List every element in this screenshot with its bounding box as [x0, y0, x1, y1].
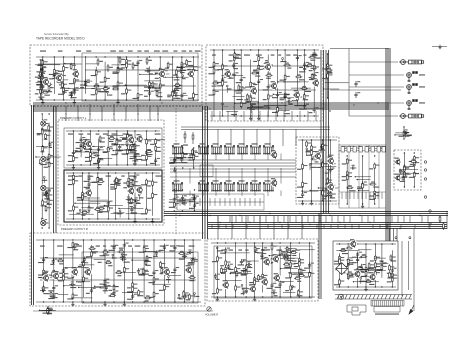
value label	[46, 91, 52, 92]
capacitor C19	[221, 77, 227, 83]
value label	[275, 255, 280, 256]
terminal	[328, 192, 330, 194]
link wire	[281, 268, 298, 270]
junction	[124, 239, 125, 240]
link wire	[175, 94, 188, 96]
value label	[68, 180, 72, 181]
link wire	[40, 309, 56, 311]
chain wire	[128, 173, 130, 219]
junction	[404, 152, 405, 153]
value label	[334, 261, 339, 262]
value label	[132, 146, 136, 147]
junction	[35, 156, 36, 157]
value label	[241, 274, 246, 275]
horizontal bus mid	[164, 212, 448, 216]
resistor R79	[73, 155, 79, 162]
link wire	[248, 107, 271, 109]
junction	[269, 255, 270, 256]
junction	[322, 200, 323, 201]
capacitor C41	[97, 158, 103, 164]
terminal	[292, 286, 294, 288]
wire	[81, 207, 93, 209]
supply rail	[298, 139, 337, 141]
capacitor C55	[133, 174, 139, 180]
resistor R71	[265, 73, 272, 77]
value label	[348, 264, 354, 265]
value label	[327, 72, 332, 73]
link wire	[90, 201, 110, 203]
resistor R25	[193, 68, 199, 75]
link wire	[100, 158, 112, 160]
junction	[222, 49, 223, 50]
value label	[267, 288, 273, 289]
capacitor C16	[173, 92, 179, 97]
junction	[108, 130, 109, 131]
value label	[267, 66, 272, 67]
value label	[144, 90, 150, 91]
resistor R181	[235, 284, 241, 291]
resistor R221	[326, 178, 332, 185]
jack line R	[407, 72, 418, 82]
junction	[42, 113, 43, 114]
junction	[311, 139, 312, 140]
value label	[122, 139, 128, 140]
junction	[193, 56, 194, 57]
link wire	[107, 135, 123, 137]
link wire	[69, 87, 95, 89]
junction	[146, 130, 147, 131]
link wire	[79, 264, 94, 266]
junction	[268, 115, 269, 116]
value label	[141, 184, 147, 185]
junction	[258, 115, 259, 116]
capacitor C2	[73, 87, 79, 93]
value label	[158, 96, 163, 97]
wire	[251, 107, 253, 113]
value label	[410, 164, 416, 165]
value label	[169, 202, 174, 203]
value label	[48, 290, 54, 291]
resistor R49	[222, 80, 228, 87]
value label	[280, 97, 286, 98]
transistor Q28	[272, 254, 280, 263]
label rows under board edges	[40, 51, 316, 251]
resistor R279	[48, 161, 54, 168]
value label	[137, 295, 143, 296]
terminal	[404, 132, 406, 134]
value label	[77, 200, 83, 201]
input socket	[40, 120, 49, 128]
resistor R160	[161, 267, 167, 274]
junction	[134, 172, 135, 173]
resistor R18	[137, 92, 143, 99]
transistor Q13	[127, 135, 135, 144]
terminal	[180, 69, 182, 71]
junction	[277, 49, 278, 50]
resistor R99	[129, 144, 135, 151]
resistor R55	[258, 64, 264, 71]
chain wire	[73, 57, 75, 94]
resistor R170	[183, 290, 189, 297]
return rail	[66, 164, 160, 166]
value label	[121, 254, 127, 255]
value label	[361, 272, 365, 273]
wire	[222, 105, 224, 111]
capacitor C50	[94, 152, 100, 157]
value label	[179, 259, 185, 260]
value label	[44, 95, 50, 96]
transistor Q30	[270, 150, 278, 159]
resistor R210	[302, 181, 308, 188]
junction	[339, 286, 340, 287]
resistor R67	[257, 67, 263, 74]
value label	[169, 162, 174, 163]
junction	[117, 56, 118, 57]
link wire	[180, 152, 192, 154]
junction	[394, 134, 395, 135]
value label	[139, 274, 144, 275]
link wire	[323, 88, 339, 90]
capacitor C58	[126, 197, 132, 202]
junction	[63, 239, 64, 240]
internal rails B2	[212, 66, 316, 90]
capacitor C33	[286, 98, 292, 103]
link wire	[113, 150, 137, 152]
label voltage selector	[375, 314, 399, 315]
junction	[184, 301, 185, 302]
transistor Q18	[42, 273, 50, 282]
value label	[369, 284, 374, 285]
link wire	[273, 93, 289, 95]
resistor R11	[104, 85, 110, 92]
switch section upper	[250, 145, 261, 154]
junction	[125, 84, 126, 85]
chain wire	[82, 173, 84, 219]
resistor R244	[368, 262, 374, 269]
capacitor C100	[240, 259, 246, 265]
chain wire	[41, 114, 43, 225]
junction	[193, 167, 194, 168]
junction	[194, 189, 195, 190]
terminal	[241, 284, 243, 286]
link wire	[86, 63, 98, 65]
value label	[117, 183, 121, 184]
value label	[117, 213, 122, 214]
value label	[342, 163, 346, 164]
value label	[369, 168, 373, 169]
transistor Q14	[136, 134, 144, 143]
junction	[235, 296, 236, 297]
capacitor C11	[175, 85, 181, 91]
link wire	[153, 283, 171, 285]
chain wire	[403, 153, 405, 187]
value label	[212, 293, 216, 294]
resistor R157	[57, 258, 64, 262]
capacitor C68	[112, 290, 118, 296]
capacitor C126	[40, 66, 46, 72]
link wire	[286, 97, 298, 99]
resistor R2	[42, 75, 48, 82]
junction	[247, 107, 248, 108]
value label	[343, 266, 349, 267]
resistor R48	[222, 63, 228, 70]
resistor R190	[290, 261, 296, 268]
capacitor C13	[145, 68, 151, 73]
resistor R211	[311, 145, 317, 152]
jack label	[419, 86, 425, 87]
resistor R134	[63, 271, 69, 278]
link wire	[252, 106, 269, 108]
resistor R31	[186, 59, 192, 66]
resistor R212	[311, 149, 317, 156]
value label	[212, 86, 217, 87]
resistor R62	[313, 64, 319, 71]
junction	[123, 272, 124, 273]
link wire	[141, 139, 165, 141]
resistor R290	[47, 307, 53, 314]
value label	[68, 210, 72, 211]
supply rail	[66, 130, 160, 132]
junction	[113, 301, 114, 302]
capacitor C47	[129, 139, 135, 144]
resistor R248	[327, 63, 333, 70]
return rail	[210, 115, 319, 117]
junction	[90, 130, 91, 131]
return rail	[298, 200, 337, 202]
wire	[242, 290, 244, 295]
resistor R232	[374, 270, 380, 277]
resistor R252	[182, 152, 188, 159]
resistor R184	[254, 276, 260, 283]
chain wire	[240, 50, 242, 109]
resistor R108	[82, 194, 88, 201]
board outline lower-mid	[207, 239, 318, 301]
resistor R257	[404, 166, 410, 173]
resistor R113	[115, 178, 121, 185]
junction	[126, 99, 127, 100]
value label	[136, 159, 142, 160]
transistor Q31	[270, 178, 278, 187]
wire	[306, 150, 308, 156]
value label	[46, 313, 51, 314]
link wire	[39, 276, 60, 278]
junction	[327, 53, 328, 54]
resistor R179	[225, 266, 231, 273]
junction	[164, 301, 165, 302]
value label	[103, 91, 109, 92]
resistor R15	[126, 58, 132, 65]
chain wire	[134, 131, 136, 165]
resistor R94	[146, 154, 152, 161]
value label	[108, 95, 112, 96]
supply rail	[66, 172, 160, 174]
junction	[164, 77, 165, 78]
wire	[41, 84, 43, 88]
value label	[327, 169, 333, 170]
capacitor C22	[240, 87, 246, 93]
ground	[253, 297, 256, 301]
chain wire	[113, 240, 115, 297]
value label	[118, 150, 124, 151]
chain wire	[62, 240, 64, 302]
value label	[322, 68, 326, 69]
capacitor C91	[308, 262, 314, 268]
resistor R161	[145, 259, 151, 266]
junction	[53, 239, 54, 240]
value label	[218, 250, 223, 251]
value label	[285, 267, 291, 268]
junction	[304, 115, 305, 116]
link wire	[355, 275, 375, 277]
resistor R21	[159, 72, 165, 79]
capacitor C4	[84, 79, 90, 85]
transistor Q5	[187, 69, 195, 78]
link wire	[289, 272, 312, 274]
junction	[403, 126, 404, 127]
value label	[139, 197, 143, 198]
junction	[182, 147, 183, 148]
resistor R173	[50, 291, 56, 298]
resistor R141	[91, 250, 97, 257]
terminal	[41, 82, 43, 84]
junction	[155, 73, 156, 74]
link wire	[144, 80, 161, 82]
value label	[297, 197, 303, 198]
terminal	[178, 294, 180, 296]
resistor R36	[40, 69, 46, 76]
resistor R126	[81, 210, 88, 214]
resistor R174	[102, 250, 109, 254]
chain wire	[39, 60, 41, 99]
value label	[37, 133, 43, 134]
resistor R177	[217, 287, 223, 294]
chain wire	[279, 246, 281, 297]
resistor R53	[250, 96, 256, 103]
jack label	[413, 61, 419, 62]
jack output L	[399, 60, 424, 65]
resistor R130	[130, 197, 136, 204]
value label	[360, 271, 364, 272]
value label	[352, 257, 358, 258]
value label	[133, 145, 137, 146]
capacitor C112	[173, 157, 179, 163]
terminal	[112, 254, 114, 256]
resistor R68	[303, 93, 309, 100]
small parts row above lattice	[342, 146, 385, 149]
chain wire	[347, 251, 349, 278]
resistor R288	[44, 189, 50, 196]
junction	[78, 287, 79, 288]
value label	[274, 295, 278, 296]
value label	[167, 95, 173, 96]
capacitor C17	[53, 72, 59, 77]
value label	[238, 264, 244, 265]
resistor R185	[254, 279, 260, 286]
value label	[113, 72, 118, 73]
junction	[88, 172, 89, 173]
value label	[182, 78, 186, 79]
value label	[132, 185, 137, 186]
chain wire	[127, 131, 129, 165]
ticks under supply bus to board B2	[212, 111, 316, 121]
junction	[104, 239, 105, 240]
value label	[310, 60, 315, 61]
value label	[111, 154, 116, 155]
junction	[250, 49, 251, 50]
chain wire	[43, 240, 45, 292]
value label	[49, 78, 54, 79]
chain wire	[183, 240, 185, 302]
chain wire	[365, 244, 367, 287]
capacitor C92	[214, 273, 220, 279]
value label	[352, 262, 357, 263]
value label	[93, 163, 99, 164]
svg-text:PREAMP OUTPUT L: PREAMP OUTPUT L	[60, 116, 87, 120]
resistor R213	[322, 143, 328, 150]
junction	[392, 243, 393, 244]
junction	[299, 242, 300, 243]
link wire	[235, 102, 247, 104]
junction	[192, 301, 193, 302]
capacitor C122	[402, 175, 408, 181]
resistor R26	[193, 92, 199, 99]
junction	[297, 49, 298, 50]
junction	[63, 99, 64, 100]
resistor R312	[119, 56, 125, 64]
junction	[275, 281, 276, 282]
capacitor C31	[313, 72, 319, 78]
wire	[119, 212, 121, 218]
link wire	[269, 255, 291, 257]
resistor R263	[346, 158, 352, 165]
link wire	[165, 275, 181, 277]
capacitor C20	[233, 72, 239, 78]
junction	[404, 186, 405, 187]
link wire	[69, 213, 94, 215]
value label	[121, 64, 127, 65]
value label	[70, 287, 76, 288]
value label	[315, 58, 320, 59]
wire	[328, 193, 330, 199]
junction	[302, 139, 303, 140]
wire	[182, 77, 184, 79]
capacitor C51	[82, 139, 88, 144]
junction	[132, 239, 133, 240]
chain wire	[346, 164, 348, 204]
junction	[47, 306, 48, 307]
value label	[376, 266, 380, 267]
value label	[174, 79, 180, 80]
board outline upper-left record amp L	[30, 45, 202, 106]
chain wire	[104, 62, 106, 100]
resistor R268	[374, 190, 380, 197]
value label	[84, 149, 90, 150]
chain wire	[53, 57, 55, 94]
value label	[241, 275, 247, 276]
switch label	[200, 143, 206, 144]
value label	[257, 279, 262, 280]
resistor R115	[115, 183, 121, 190]
switch section lower	[263, 182, 274, 191]
capacitor C120	[191, 195, 197, 200]
value label	[234, 68, 239, 69]
value label	[245, 87, 250, 88]
resistor R233	[381, 260, 387, 267]
resistor R215	[322, 189, 328, 196]
resistor R272	[403, 130, 409, 137]
value label	[327, 195, 332, 196]
value label	[220, 265, 224, 266]
